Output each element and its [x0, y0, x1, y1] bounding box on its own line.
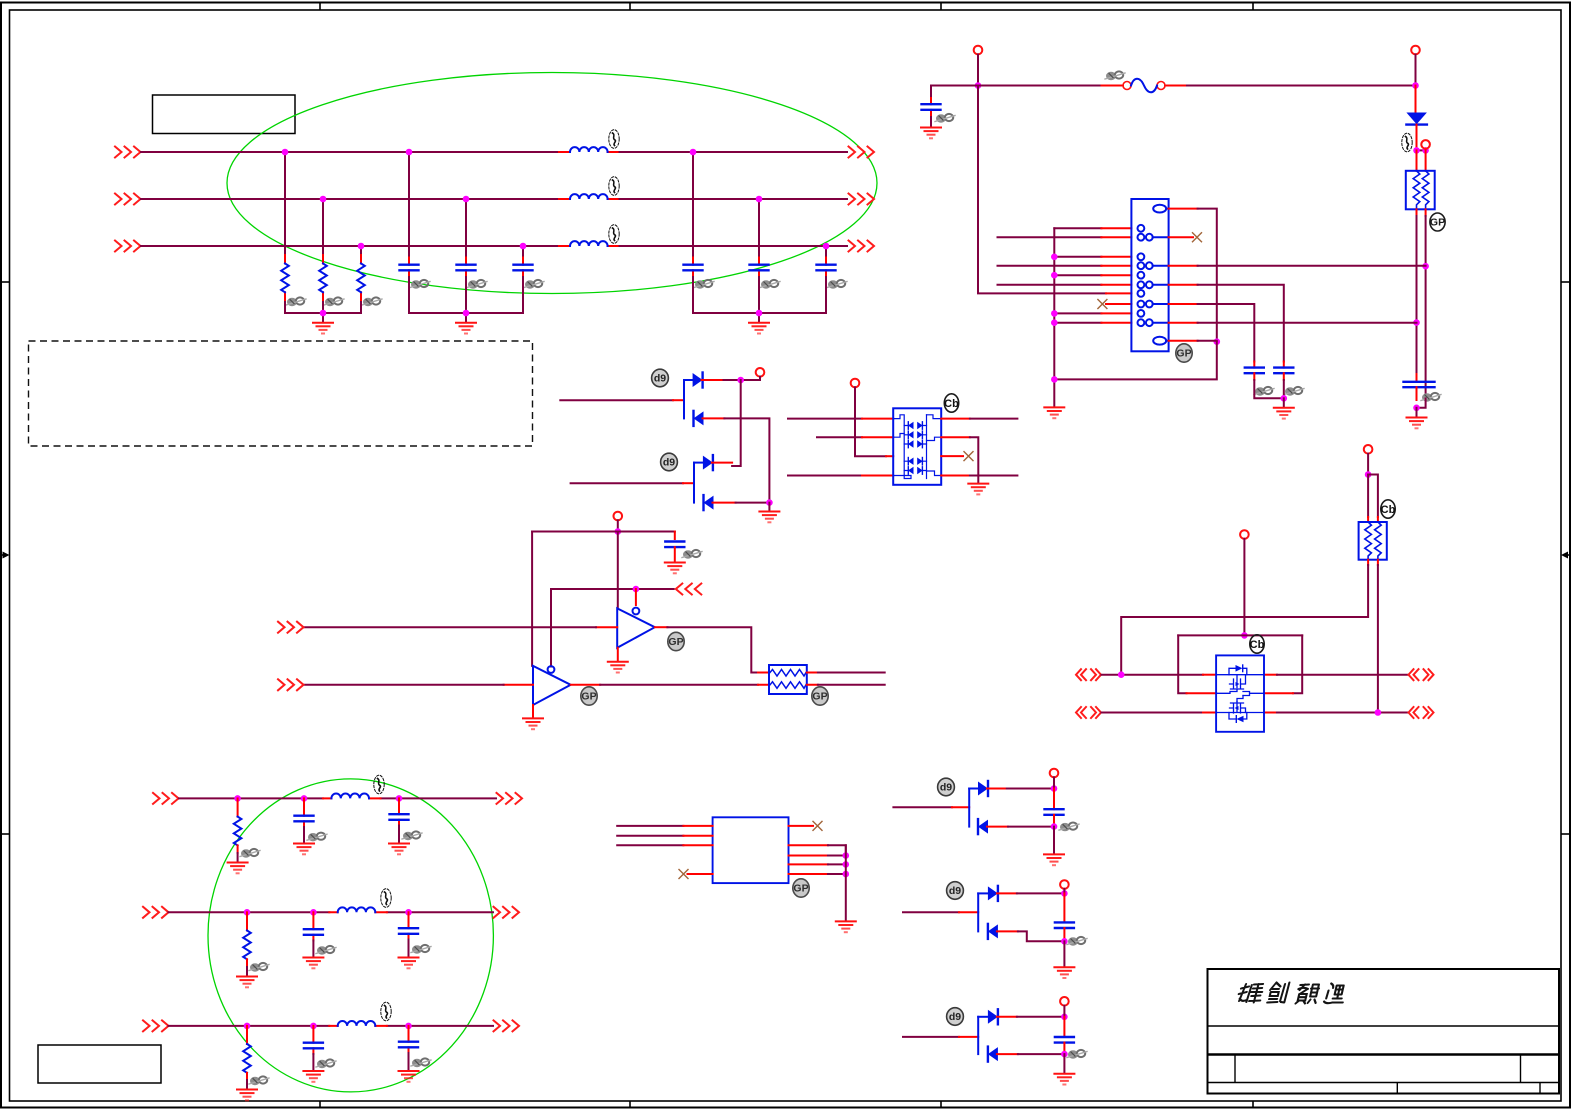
green highlight ellipse (single-phase filters) — [208, 779, 493, 1092]
wire capacitor tap A2 — [692, 152, 694, 258]
capacitor C10 — [1274, 368, 1293, 374]
row2 resistor lower lead — [246, 959, 248, 976]
capacitor C6 label — [827, 280, 847, 289]
row2 cap2 stub — [408, 912, 410, 939]
wire row6 left — [998, 284, 1102, 286]
junction dot — [1051, 272, 1058, 279]
junction dot — [1412, 82, 1419, 89]
group2 wire jog to node — [1018, 931, 1065, 941]
fuse F1 — [1123, 79, 1165, 93]
junction dot — [615, 528, 622, 535]
capacitor C11 — [665, 542, 684, 548]
wire row1 right — [1277, 674, 1408, 676]
wire resistor tap A — [284, 152, 286, 255]
wire row2 left — [817, 436, 862, 438]
wire row4 right stub — [941, 475, 970, 477]
row2 cap2 ground lead — [408, 940, 410, 958]
buffer U2 triangle — [617, 608, 655, 647]
wire capacitor tap C2 — [825, 246, 827, 258]
capacitor C10 label — [1284, 387, 1304, 396]
resistor R3 lead stubs — [360, 255, 362, 302]
company logotype (CJK brush strokes) — [1237, 983, 1348, 1004]
group1 bottom diode stub — [987, 826, 1008, 828]
IC U4 label GP — [793, 879, 809, 897]
no-connect X row8 left — [1098, 300, 1107, 309]
row1 cap1 — [295, 816, 314, 822]
inductor L1 — [570, 147, 608, 152]
wire U4 right pin4 — [828, 863, 846, 865]
capacitor C1 label — [410, 280, 430, 289]
wire DP1 input stub — [673, 399, 684, 401]
row2 chevrons right — [494, 907, 520, 918]
row3 cap1 stub — [312, 1026, 314, 1054]
fuse F1 label — [1105, 71, 1125, 80]
group2 common vertical — [977, 893, 979, 931]
resistor pack RP1 element 1 — [1413, 171, 1420, 210]
row3 inductor — [338, 1021, 376, 1026]
wire row4 long to right column — [1198, 265, 1426, 267]
wire row5 from bus — [1054, 274, 1101, 276]
capacitor C7 label — [935, 114, 955, 123]
wire resistor tap B — [322, 199, 324, 255]
group3 top diode — [988, 1009, 998, 1024]
wire power stub — [617, 520, 619, 531]
wire gate right stub — [1264, 692, 1293, 694]
capacitor C2 — [457, 265, 476, 271]
row1 resistor stub — [237, 798, 239, 816]
junction dot — [843, 871, 850, 878]
group2 wire to ground — [1063, 941, 1065, 967]
capacitor C3 lead stubs — [522, 258, 524, 278]
title block divider v3 — [1396, 1083, 1398, 1094]
ground — [968, 484, 988, 495]
junction dot — [756, 196, 763, 203]
empty annotation rectangle top-left — [153, 95, 296, 134]
group1 wire to node — [1007, 788, 1054, 790]
ground — [294, 844, 314, 855]
capacitor C5 — [750, 265, 769, 271]
wire gate power drop — [1243, 539, 1245, 636]
diode DP2b — [704, 495, 714, 510]
wire U2 output to RP2 — [667, 627, 758, 672]
group1 top diode — [978, 781, 988, 796]
junction dot — [1051, 319, 1058, 326]
resistor pack RP3 element 1 — [1365, 522, 1372, 560]
capacitor C1 — [400, 265, 419, 271]
ESD array U1 body — [893, 408, 941, 485]
junction dot — [1365, 471, 1372, 478]
junction dot — [1051, 310, 1058, 317]
junction dot — [737, 377, 744, 384]
group1 bottom diode — [978, 819, 988, 834]
ground — [665, 563, 685, 574]
junction dot — [406, 149, 413, 156]
wire row9 from bus — [1054, 312, 1101, 314]
wire row4 right — [970, 475, 1018, 477]
junction dot — [1422, 147, 1429, 154]
group2 top diode lead — [978, 892, 988, 894]
wire U4 right pin2 stub — [789, 844, 829, 846]
connector J1 mounting oval bottom — [1153, 337, 1168, 345]
resistor pack RP1 leads bottom — [1417, 209, 1426, 216]
group1 capacitor label — [1059, 823, 1079, 832]
wire U4 pin2 left — [617, 835, 683, 837]
wire common bus to ground — [845, 845, 847, 921]
output chevrons left-pointing — [676, 584, 702, 595]
wire row5 pin stub — [1101, 274, 1131, 276]
wire row10 long to right column — [1198, 322, 1417, 324]
border zone tick bottom 4 — [1252, 1101, 1254, 1108]
wire row3 right — [1277, 712, 1408, 714]
junction dot (row10 join) — [1413, 319, 1420, 326]
ground — [237, 1090, 257, 1101]
resistor pack RP2 stubs right — [807, 673, 818, 685]
row2 cap1 — [304, 929, 323, 935]
wire power stub — [759, 377, 761, 380]
wire row4 left — [998, 265, 1102, 267]
junction dot — [843, 852, 850, 859]
wire power stub — [1063, 889, 1065, 894]
resistor pack RP3 label Cb — [1381, 500, 1396, 518]
dashed note box — [29, 341, 533, 446]
junction dot — [1214, 338, 1221, 345]
wire U4 right pin4 stub — [789, 863, 829, 865]
title block divider v1 — [1234, 1055, 1236, 1083]
group2 capacitor label — [1067, 937, 1087, 946]
wire cap to ground — [930, 117, 932, 127]
connector J1 mounting oval top — [1153, 205, 1168, 213]
diode DP1b anode stub — [703, 417, 725, 419]
wire node to ground — [1416, 408, 1418, 417]
capacitor C3 label — [524, 280, 544, 289]
wire capacitor rail 2 — [693, 277, 826, 322]
bus line A chevrons right — [849, 147, 875, 158]
group1 top diode lead — [969, 788, 978, 790]
capacitor C4 — [684, 265, 703, 271]
ground — [1044, 407, 1064, 418]
group3 capacitor label — [1067, 1050, 1087, 1059]
wire resistor common rail — [285, 302, 361, 322]
junction dot — [320, 196, 327, 203]
inductor L3 label — [609, 225, 619, 244]
ground — [399, 1071, 419, 1082]
wire row1 left — [788, 418, 862, 420]
inductor L3 lead stubs — [559, 245, 618, 247]
wire row10 pin stub — [1101, 322, 1131, 324]
ESD array U1 internal diodes — [893, 415, 941, 479]
group2 input wire — [903, 911, 959, 913]
title block row line 2 (thick) — [1208, 1053, 1560, 1056]
capacitor C5 label — [760, 280, 780, 289]
connector J1 pin circles column 2 — [1146, 234, 1153, 326]
wire U4 pin1 stub — [683, 825, 712, 827]
inductor L2 label — [609, 177, 619, 196]
power node circle gate — [1240, 530, 1249, 539]
junction dot — [1061, 938, 1068, 945]
wire row4 stub — [862, 475, 893, 477]
capacitor C11 label — [682, 550, 702, 559]
junction dot — [1061, 890, 1068, 897]
title block divider v4 — [1539, 1083, 1541, 1094]
diode D1 lead lower — [1416, 125, 1418, 151]
diode DP1a anode lead — [684, 379, 693, 381]
capacitor C3 — [514, 265, 533, 271]
inductor L3 — [570, 241, 608, 246]
border zone tick right 2 — [1561, 833, 1570, 835]
group3 label d9 — [947, 1008, 964, 1026]
junction dot — [405, 909, 412, 916]
connector J1 pin circles column 1 — [1138, 225, 1145, 326]
row3 cap2 label — [411, 1058, 431, 1067]
capacitor C9 lead bottom — [1253, 373, 1255, 380]
capacitor C8 lead top — [1416, 374, 1418, 381]
junction dot — [310, 909, 317, 916]
junction dot (row4 join) — [1422, 263, 1429, 270]
wire DP1a to power — [724, 379, 761, 381]
wire DP2 input — [571, 482, 683, 484]
resistor pack RP3 element 2 — [1375, 522, 1382, 560]
row1 inductor — [331, 794, 369, 799]
ground — [921, 128, 941, 139]
row2 inductor label — [381, 889, 391, 908]
diode DP2a anode lead — [694, 462, 703, 464]
junction dot — [234, 795, 241, 802]
wire row7 pin stub — [1106, 292, 1131, 294]
diode D1 lead — [1415, 86, 1417, 113]
row1 resistor — [234, 817, 242, 846]
row3 cap2 ground lead — [408, 1053, 410, 1071]
border zone tick top 1 — [319, 3, 321, 11]
resistor pack RP2 label GP — [812, 687, 828, 705]
junction dot — [282, 149, 289, 156]
row1 inductor label — [374, 775, 384, 794]
ground — [303, 958, 323, 969]
row2 cap1 stub — [312, 912, 314, 940]
resistor pack RP3 box — [1359, 522, 1387, 560]
row3 cap2 stub — [408, 1026, 410, 1053]
row2 resistor — [243, 931, 251, 960]
ground — [836, 921, 856, 932]
no-connect X mark — [1193, 233, 1202, 242]
group2 capacitor lead bottom — [1063, 928, 1065, 941]
wire gate rail — [1178, 634, 1302, 636]
diode DP1a — [693, 373, 703, 388]
connector J1 body — [1131, 199, 1168, 351]
row1 resistor lower lead — [237, 845, 239, 862]
resistor R3 — [357, 264, 365, 293]
border zone tick top 2 — [629, 3, 631, 11]
row3 chevrons left — [143, 1020, 169, 1031]
border zone tick left 2 — [1, 833, 10, 835]
buffer U2 input stub — [596, 626, 617, 628]
wire row1 from bus — [1054, 227, 1101, 229]
bus line C chevrons right — [849, 241, 875, 252]
diode DP2a — [703, 455, 713, 470]
row3 inductor stubs — [329, 1025, 387, 1027]
junction dot — [633, 586, 640, 593]
capacitor C6 lead stubs — [825, 258, 827, 278]
resistor R1 lead stubs — [284, 255, 286, 302]
row2 cap1 ground lead — [312, 941, 314, 958]
wire DP1b to ground column — [724, 418, 769, 502]
wire U4 pin2 stub — [683, 835, 712, 837]
resistor R2 — [319, 264, 327, 293]
wire bus line C — [141, 245, 847, 247]
row1 chevrons right — [497, 793, 523, 804]
group3 wire to ground — [1063, 1054, 1065, 1073]
group3 capacitor lead bottom — [1063, 1043, 1065, 1055]
wire U3 output to RP2 — [600, 684, 758, 686]
green highlight ellipse (3-phase filter) — [227, 73, 877, 294]
wire power drop right — [1415, 55, 1417, 86]
wire U4 pin3 left — [617, 844, 683, 846]
ground — [228, 863, 248, 874]
bus line B chevrons left — [115, 194, 141, 205]
resistor R2 lead stubs — [322, 255, 324, 302]
row3 resistor stub — [246, 1026, 248, 1044]
wire gate left stub — [1187, 692, 1217, 694]
wire DP1 node down to DP2 — [732, 380, 741, 466]
row2 chevrons left — [143, 907, 169, 918]
junction dot — [520, 243, 527, 250]
buffer U3 output stub — [571, 684, 601, 686]
wire U3 input from chevrons — [304, 684, 504, 686]
wire U4 right pin5 stub — [789, 873, 829, 875]
group2 top diode — [988, 886, 998, 901]
junction dot — [320, 310, 327, 317]
ground — [1054, 967, 1074, 978]
row3 chevrons left — [1076, 707, 1101, 718]
wire DP1 input — [560, 399, 673, 401]
diode pair DP2 label d9 — [661, 453, 678, 471]
wire row1 left stub — [1203, 674, 1216, 676]
group2 capacitor — [1055, 922, 1074, 928]
border mid arrow right — [1561, 552, 1570, 559]
group2 wire to node — [1017, 892, 1065, 894]
MOSFET pair Q1 diode glyphs — [1235, 665, 1244, 722]
junction dot — [1051, 785, 1058, 792]
capacitor C11 lead bottom — [674, 547, 676, 562]
resistor pack RP2 element 2 — [770, 682, 806, 689]
junction dot — [1413, 405, 1420, 412]
buffer U2 bubble — [633, 608, 640, 615]
capacitor C2 label — [467, 280, 487, 289]
row1 cap2 stub — [398, 798, 400, 825]
capacitor C2 lead stubs — [465, 258, 467, 278]
power node circle — [1050, 769, 1059, 778]
junction dot — [756, 310, 763, 317]
wire power drop — [1367, 454, 1369, 475]
junction dot — [301, 795, 308, 802]
wire DP1 common vertical — [683, 380, 685, 418]
wire RP1 left leg down — [1416, 216, 1418, 374]
MOSFET pair Q1 label Cb — [1250, 635, 1265, 653]
group3 input stub — [959, 1036, 978, 1038]
capacitor C4 label — [694, 280, 714, 289]
resistor pack RP2 stubs left — [758, 673, 769, 685]
wire left leg down — [1367, 475, 1369, 518]
border zone tick bottom 2 — [629, 1101, 631, 1108]
wire U4 right pin1 stub — [789, 825, 814, 827]
border zone tick top 4 — [1252, 3, 1254, 11]
resistor pack RP3 leads bottom — [1368, 560, 1378, 565]
row3 inductor label — [381, 1002, 391, 1021]
group3 top diode lead — [978, 1016, 988, 1018]
resistor pack RP2 element 1 — [770, 670, 806, 677]
buffer U2 label GP — [668, 632, 684, 650]
group3 capacitor lead top — [1063, 1017, 1065, 1037]
buffer U2 output stub — [655, 626, 668, 628]
junction dot — [244, 909, 251, 916]
group3 bottom diode stub — [997, 1053, 1018, 1055]
capacitor C8 label — [1421, 393, 1441, 402]
wire power rail — [532, 531, 675, 533]
wire row3 from bus — [1054, 256, 1101, 258]
resistor pack RP1 element 2 — [1422, 171, 1429, 210]
capacitor C10 lead bottom — [1283, 373, 1285, 398]
power node circle — [756, 368, 765, 377]
group1 capacitor lead top — [1053, 789, 1055, 810]
group1 label d9 — [938, 778, 955, 796]
wire enable drop to upper bubble — [635, 589, 637, 605]
diode D1 (cathode down) — [1406, 113, 1427, 125]
no-connect X row2 right — [1169, 236, 1193, 238]
border zone tick left 1 — [1, 281, 10, 283]
wire power stub — [1053, 777, 1055, 788]
junction dot — [1061, 1051, 1068, 1058]
wire row3 pin stub — [1101, 256, 1131, 258]
row3 resistor lower lead — [246, 1073, 248, 1089]
ground — [389, 844, 409, 855]
ESD array U1 label Cb — [944, 394, 959, 412]
power node circle — [1060, 997, 1069, 1006]
group3 input wire — [903, 1036, 959, 1038]
border zone tick right 1 — [1561, 281, 1570, 283]
junction dot — [396, 795, 403, 802]
wire left leg to row1 — [1121, 565, 1368, 675]
diode pair DP1 label d9 — [652, 369, 669, 387]
row1 cap2 label — [402, 831, 422, 840]
MOSFET pair Q1 body — [1216, 655, 1264, 731]
row3 chevrons right — [1409, 707, 1434, 718]
row1 cap1 label — [307, 833, 327, 842]
row2 inductor — [338, 907, 376, 912]
junction dot — [1051, 376, 1058, 383]
group3 top diode stub — [997, 1016, 1017, 1018]
wire capacitor tap B2 — [758, 199, 760, 258]
group2 bottom diode stub — [997, 930, 1018, 932]
junction dot — [358, 243, 365, 250]
empty annotation rectangle bottom-left — [38, 1045, 161, 1083]
wire row2 stub — [862, 436, 893, 438]
junction dot — [405, 1023, 412, 1030]
wire row6 pin stub — [1101, 284, 1131, 286]
junction dot — [843, 861, 850, 868]
IC U4 body — [713, 817, 789, 883]
wire row10 from bus — [1054, 322, 1101, 324]
junction dot — [1118, 671, 1125, 678]
title block outline — [1208, 969, 1560, 1094]
junction dot — [244, 1023, 251, 1030]
wire row8 right stub — [1169, 303, 1198, 305]
group1 capacitor — [1045, 809, 1064, 815]
wire fuse to right power column — [1187, 85, 1416, 87]
wire row2 right to ground drop — [970, 437, 978, 483]
group2 input stub — [959, 911, 978, 913]
ground — [749, 323, 769, 334]
ground — [1044, 854, 1064, 865]
wire row1 left — [1102, 674, 1204, 676]
